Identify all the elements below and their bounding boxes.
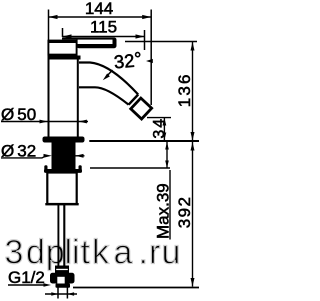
extension line right (dim 144) — [150, 10, 152, 106]
svg-text:392: 392 — [175, 196, 194, 229]
extension tick right (dim 115) — [144, 30, 146, 50]
leader and arrows diameter 32 — [1, 157, 43, 159]
ferrule — [55, 266, 69, 274]
bottom dimension ticks — [57, 287, 59, 299]
mounting surface line — [89, 140, 199, 142]
nut tail — [56, 284, 71, 288]
svg-text:136: 136 — [175, 72, 194, 107]
small arrow on right extension line — [146, 59, 153, 63]
arrow for 32 degrees — [107, 70, 113, 77]
dimension line 115 — [63, 36, 145, 38]
supply pipe right wall — [63, 204, 65, 266]
spout top edge — [79, 63, 138, 95]
supply pipe left wall — [57, 204, 59, 266]
dimension line 136 — [192, 42, 194, 141]
spout bottom edge — [79, 87, 129, 104]
leader line Max.39 — [169, 170, 171, 240]
dimension line 144 — [49, 16, 152, 18]
bottom dimension line — [45, 293, 77, 295]
connector nut — [50, 273, 75, 284]
joint bar under handle — [48, 56, 81, 60]
svg-text:144: 144 — [85, 0, 113, 18]
aerator neck line — [129, 95, 139, 105]
leader G1/2 — [8, 284, 44, 286]
mounting box bottom lip — [45, 203, 78, 205]
extension line left (dim 144) — [48, 10, 50, 43]
svg-text:G1/2: G1/2 — [8, 268, 45, 287]
extension line aerator (dim 34) — [147, 117, 171, 119]
lower flange — [44, 169, 82, 173]
dimension line Max.39 — [166, 142, 168, 169]
extension tick left (dim 115) — [62, 28, 64, 37]
mounting box — [47, 173, 76, 205]
leader and arrows diameter 50 — [1, 121, 48, 123]
lever handle — [62, 37, 114, 39]
extension line lower flange (Max.39) — [90, 167, 170, 169]
svg-text:32°: 32° — [113, 48, 143, 73]
dimension line 34 — [163, 118, 165, 141]
threaded section — [52, 143, 76, 170]
dimension line 392 — [192, 142, 194, 287]
svg-text:115: 115 — [90, 18, 117, 37]
handle knob — [48, 41, 76, 55]
svg-text:34: 34 — [151, 117, 168, 139]
aerator tip — [131, 98, 152, 119]
faucet body right edge — [77, 60, 79, 138]
bottom reference line — [73, 287, 199, 289]
faucet body left edge — [48, 56, 50, 138]
base flange — [43, 137, 85, 143]
top extension line (dim 136) — [125, 41, 197, 43]
